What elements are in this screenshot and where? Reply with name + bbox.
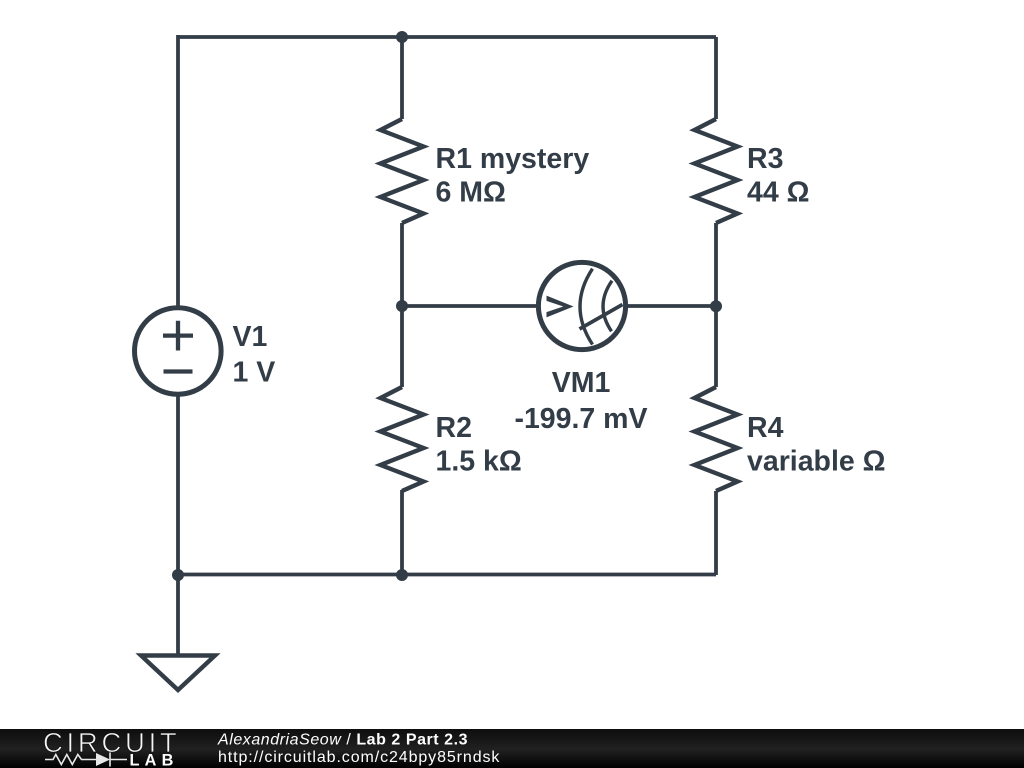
wire middle vertical upper	[400, 37, 404, 119]
resistor R2	[381, 387, 424, 491]
ground	[141, 656, 215, 691]
node mid-left junction	[396, 300, 408, 312]
wire middle vertical between R1 and R2	[400, 223, 404, 387]
svg-text:LAB: LAB	[130, 751, 179, 768]
CircuitLab logo diode cathode	[109, 753, 111, 767]
voltmeter VM1	[538, 262, 625, 349]
wire right vertical between R3 and R4	[714, 223, 718, 387]
node bottom-left junction	[172, 569, 184, 581]
voltmeter VM1 arrow glyph	[547, 296, 574, 318]
CircuitLab logo resistor glyph	[45, 753, 127, 767]
svg-text:http://circuitlab.com/c24bpy85: http://circuitlab.com/c24bpy85rndsk	[218, 749, 500, 766]
wire right vertical lower	[714, 491, 718, 575]
wire left vertical upper	[176, 35, 180, 307]
node mid-right junction	[710, 300, 722, 312]
wire VM1 right	[627, 304, 716, 308]
resistor R1	[381, 119, 424, 223]
voltage source V1	[135, 308, 222, 395]
wire middle vertical lower	[400, 490, 404, 575]
wire left vertical lower	[176, 395, 180, 655]
CircuitLab logo diode	[96, 753, 110, 766]
resistor R4	[695, 387, 738, 491]
wire VM1 left	[402, 304, 537, 308]
wire bottom horizontal	[178, 573, 716, 577]
footer bar	[0, 729, 1024, 768]
svg-text:AlexandriaSeow / Lab 2 Part 2.: AlexandriaSeow / Lab 2 Part 2.3	[217, 731, 468, 748]
wire top horizontal	[178, 35, 716, 39]
node A top junction	[396, 31, 408, 43]
resistor R3	[695, 119, 738, 223]
wire right vertical upper	[714, 37, 718, 119]
node bottom-middle junction	[396, 569, 408, 581]
